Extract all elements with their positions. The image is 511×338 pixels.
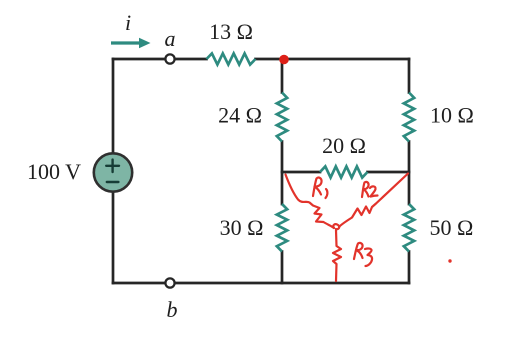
svg-text:24 Ω: 24 Ω (218, 103, 262, 128)
svg-text:a: a (165, 26, 176, 51)
svg-text:50 Ω: 50 Ω (430, 215, 474, 240)
svg-text:13 Ω: 13 Ω (209, 19, 253, 44)
svg-text:10 Ω: 10 Ω (430, 103, 474, 128)
svg-text:i: i (125, 10, 131, 35)
svg-text:100 V: 100 V (27, 159, 81, 184)
svg-text:b: b (167, 297, 178, 322)
svg-text:30 Ω: 30 Ω (220, 215, 264, 240)
svg-text:20 Ω: 20 Ω (322, 133, 366, 158)
